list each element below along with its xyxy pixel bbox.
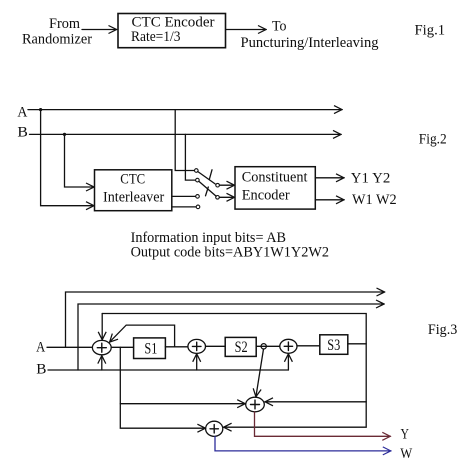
switch contact C2 (196, 178, 200, 182)
svg-text:A: A (17, 104, 27, 120)
svg-text:CTC: CTC (120, 171, 145, 187)
adder X2 (188, 339, 206, 353)
wire B branch down to interleaver (65, 134, 95, 187)
svg-text:Randomizer: Randomizer (22, 32, 92, 48)
svg-text:B: B (17, 125, 28, 141)
wire Y output (maroon) (255, 412, 391, 436)
wire B arrow into adder X1 bottom (101, 356, 103, 370)
svg-text:W1 W2: W1 W2 (352, 192, 397, 208)
adder X4 (246, 397, 265, 412)
wire feedback arrow into adder X1 top (101, 314, 103, 340)
wire S1 feedback tap to adder X1 (diagonal) (110, 325, 175, 347)
register S3 (320, 335, 348, 355)
wire systematic B output (second line Fig.3) (78, 304, 384, 370)
svg-text:Y: Y (401, 427, 410, 443)
wire B bus with arrow (30, 133, 342, 135)
wire B feed to switch contact (185, 134, 195, 180)
wire encoder output Y1 Y2 (315, 177, 344, 179)
block CTC Encoder (118, 14, 226, 48)
adder X5 (206, 421, 223, 436)
svg-text:Fig.1: Fig.1 (415, 23, 446, 39)
switch contact C3 (196, 195, 200, 199)
wire feedback from S3 (third line, wraps right side down) (102, 314, 366, 428)
label To Puncturing/Interleaving (241, 19, 379, 52)
wire A branch down to interleaver (41, 110, 94, 206)
svg-text:Rate=1/3: Rate=1/3 (131, 29, 181, 45)
wire W output (blue) (215, 437, 391, 451)
junction dot on B (63, 133, 66, 136)
svg-text:To: To (272, 19, 287, 35)
svg-text:Y1 Y2: Y1 Y2 (351, 171, 391, 187)
register S1 (134, 338, 166, 359)
svg-text:B: B (36, 362, 46, 378)
switch tick 2 (206, 187, 209, 196)
svg-text:Fig.2: Fig.2 (419, 131, 447, 147)
wire A feed to switch contact (175, 110, 194, 171)
wire S3 output to right bus (348, 343, 366, 345)
wire systematic A output (top line Fig.3) (66, 292, 385, 347)
svg-text:Output code bits=ABY1W1Y2W2: Output code bits=ABY1W1Y2W2 (131, 245, 329, 261)
wire adder X3 to S3 (297, 345, 320, 347)
svg-text:S3: S3 (327, 337, 340, 354)
svg-text:S2: S2 (235, 339, 248, 356)
wire adder X1 to S1 (111, 346, 133, 348)
node tap after S2 (261, 344, 266, 349)
wire B bus Fig.3 (48, 369, 288, 371)
adder X1 (92, 340, 111, 354)
junction dot on A (39, 108, 42, 111)
wire A input to adder X1 (47, 346, 92, 348)
block Constituent Encoder (235, 167, 315, 209)
svg-text:S1: S1 (144, 341, 157, 358)
wire adder X2 to S2 (206, 345, 226, 347)
svg-text:W: W (400, 446, 413, 462)
wire tap down to adder X5 (120, 347, 205, 428)
svg-text:Encoder: Encoder (242, 187, 290, 203)
wire tap diagonal into adder X4 top (256, 349, 264, 397)
switch common contact C5 (216, 183, 220, 187)
wire right bus to adder X4 right input (265, 401, 366, 403)
register S2 (225, 337, 256, 356)
caption information input bits (131, 230, 329, 261)
wire switch to encoder input 1 (220, 184, 235, 186)
adder X3 (280, 339, 297, 353)
svg-text:Constituent: Constituent (242, 169, 309, 185)
svg-text:Interleaver: Interleaver (103, 189, 164, 205)
switch contact C1 (195, 169, 199, 173)
switch contact C4 (196, 205, 200, 209)
block CTC Interleaver (95, 170, 172, 211)
svg-text:A: A (36, 339, 45, 355)
svg-text:Puncturing/Interleaving: Puncturing/Interleaving (241, 35, 379, 51)
wire switch to encoder input 2 (219, 196, 234, 198)
wire output arrow to Puncturing/Interleaving (226, 29, 266, 31)
wire B arrow into adder X2 bottom (196, 354, 198, 370)
switch tick 1 (209, 170, 212, 180)
label From Randomizer (22, 16, 92, 48)
switch common contact C6 (216, 196, 220, 200)
wire input arrow to CTC Encoder (82, 29, 117, 31)
wire interleaver output 1 (172, 195, 196, 197)
wire interleaver output 2 (172, 206, 196, 208)
svg-text:Fig.3: Fig.3 (428, 322, 457, 338)
wire S2 to adder X3 (256, 345, 280, 347)
svg-text:From: From (49, 16, 80, 32)
switch blade 2 (199, 181, 216, 196)
wire tap branch to adder X4 (120, 403, 245, 405)
wire S1 to adder X2 (165, 346, 188, 348)
switch blade 1 (198, 172, 215, 184)
wire A bus with arrow (28, 109, 342, 111)
wire B arrow into adder X3 bottom (287, 354, 289, 370)
wire encoder output W1 W2 (315, 199, 344, 201)
